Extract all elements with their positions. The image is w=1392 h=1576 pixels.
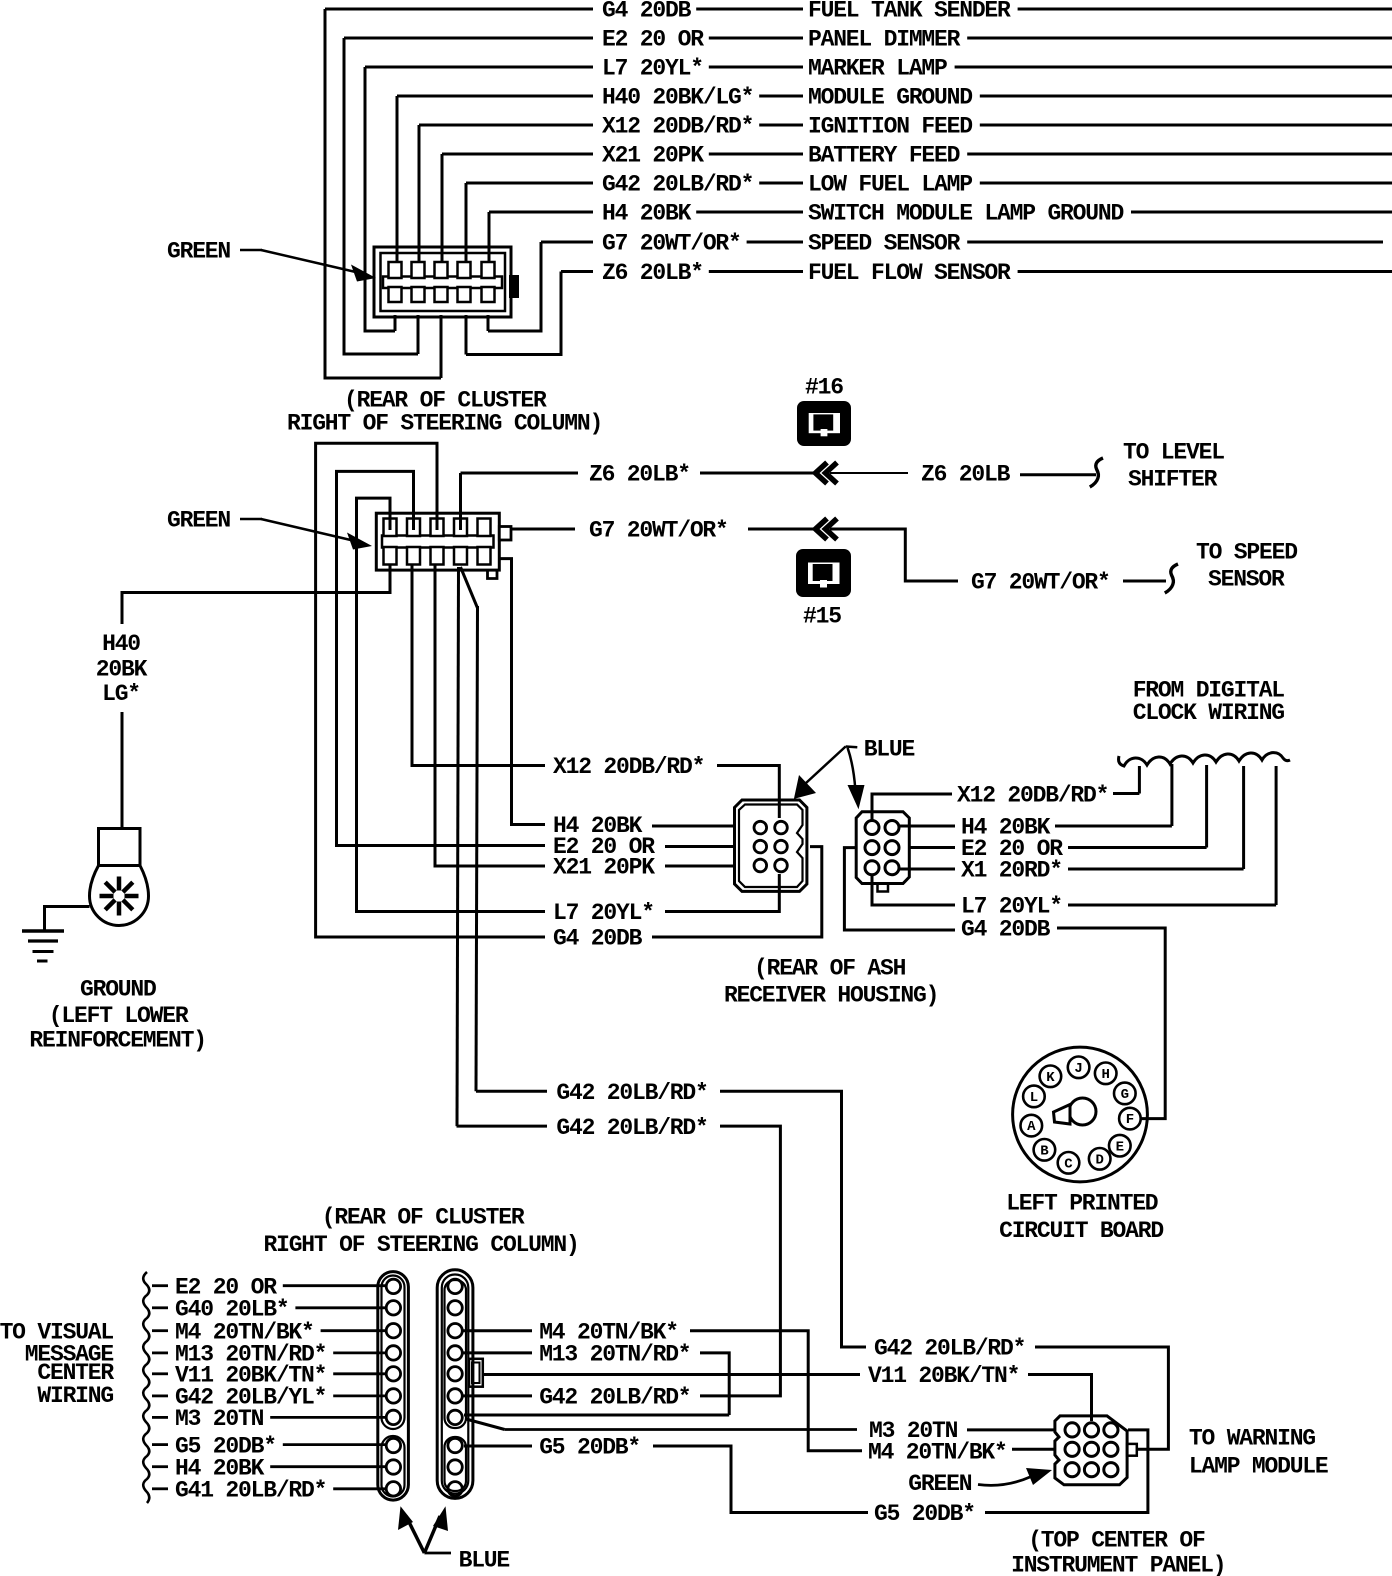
connector C2 top tooth 3 — [431, 519, 444, 537]
svg-text:LAMP MODULE: LAMP MODULE — [1189, 1453, 1328, 1479]
wire S2 pin7 diagonal to M3 run — [466, 1419, 505, 1430]
wire G7 from C2 right tab — [511, 528, 575, 531]
wire squiggle stub V11 20BK/TN* — [152, 1372, 168, 1375]
wire S2 pin7 horizontal run — [464, 1414, 729, 1417]
wire S2 pin6 to G42 label — [463, 1394, 532, 1397]
warning module right tab — [1127, 1444, 1137, 1456]
wire X21 vertical to C1 top pin 3 — [441, 154, 444, 262]
wire H4 to connector A pin top-left — [652, 825, 736, 828]
svg-text:FUEL FLOW SENSOR: FUEL FLOW SENSOR — [808, 260, 1011, 286]
svg-text:G41 20LB/RD*: G41 20LB/RD* — [175, 1478, 326, 1504]
wire row X21 20PK horizontal — [442, 153, 593, 156]
wire X12 vertical to C1 top pin 2 — [418, 125, 421, 262]
connector C2 outer shell — [376, 513, 499, 570]
connector A inner outline — [739, 805, 803, 888]
PCB pin E — [1109, 1135, 1131, 1157]
wire E2 20 OR to description — [709, 37, 803, 40]
svg-text:LG*: LG* — [102, 681, 140, 707]
inline connector icon #16 — [797, 401, 851, 446]
strip S2 pin 1 — [448, 1279, 462, 1293]
strip S1 pin 4 — [386, 1346, 400, 1360]
wire G4 to connector A pin mid-right — [652, 847, 822, 937]
connector C1 right lock tab — [509, 275, 519, 298]
wire V11 20BK/TN* to strip connector S1 — [333, 1372, 385, 1375]
wire G42 20LB/RD* to description — [759, 182, 803, 185]
brace to speed sensor — [1165, 564, 1178, 593]
wire G4 20DB to description — [696, 8, 803, 11]
wire M13 right jog down — [700, 1353, 729, 1415]
strip connector S1 lower cavity — [382, 1436, 405, 1497]
svg-text:X21 20PK: X21 20PK — [553, 855, 655, 881]
wire X12 to connector A pin top-right — [717, 766, 779, 819]
wire G42 down into warning module tab — [1035, 1347, 1168, 1449]
wire E2 to connector A pin mid-left — [665, 845, 736, 848]
wire PANEL DIMMER to right edge — [967, 37, 1392, 40]
PCB center post — [1069, 1098, 1096, 1125]
wire G42-1 into label — [476, 1090, 547, 1093]
connector C1 bottom tooth 4 — [458, 287, 471, 302]
wire M4 into warning module pin mid-left — [1012, 1448, 1056, 1451]
svg-text:SPEED SENSOR: SPEED SENSOR — [808, 231, 961, 257]
svg-text:M3 20TN: M3 20TN — [175, 1406, 264, 1432]
wire X12 from C2 bottom tooth2 — [412, 565, 545, 766]
leader arrow BLUE to strip S2 — [424, 1516, 440, 1553]
wire Z6 riser to C1 bottom pin 4 — [465, 315, 468, 355]
wire MODULE GROUND to right edge — [980, 95, 1392, 98]
wire G7 label to chevron — [748, 528, 814, 531]
svg-text:MODULE GROUND: MODULE GROUND — [808, 85, 972, 111]
strip S2 pin 8 — [448, 1438, 462, 1452]
wire L7 20YL* to description — [709, 66, 803, 69]
strip connector S1 upper cavity — [382, 1276, 405, 1430]
PCB pin A — [1021, 1115, 1043, 1137]
connector A pin r3c2 — [775, 859, 788, 872]
wire G42-2 into label — [457, 1125, 548, 1128]
svg-text:G42 20LB/RD*: G42 20LB/RD* — [874, 1336, 1025, 1362]
wire G7 to brace — [1123, 580, 1166, 583]
connector C2 center channel — [382, 536, 494, 548]
PCB pin G — [1114, 1083, 1136, 1105]
svg-text:FUEL TANK SENDER: FUEL TANK SENDER — [808, 0, 1011, 24]
svg-text:G4 20DB: G4 20DB — [602, 0, 692, 24]
svg-text:L7 20YL*: L7 20YL* — [553, 900, 654, 926]
wire squiggle stub G41 20LB/RD* — [152, 1487, 168, 1490]
wire Z6 vertical right — [560, 272, 563, 357]
svg-text:E: E — [1116, 1139, 1124, 1155]
lamp bulb — [90, 866, 149, 926]
svg-text:H40: H40 — [102, 631, 140, 657]
wire G4 right to printed circuit board — [1057, 928, 1165, 1119]
wire row Z6 20LB* horizontal — [561, 270, 593, 273]
wire H4 right to clock drop — [1055, 825, 1172, 828]
strip S1 pin 10 — [386, 1482, 400, 1496]
svg-text:IGNITION FEED: IGNITION FEED — [808, 114, 972, 140]
connector A pin r3c1 — [754, 859, 767, 872]
leader arrow GREEN to warning module — [978, 1477, 1030, 1485]
svg-text:H40 20BK/LG*: H40 20BK/LG* — [602, 85, 753, 111]
svg-text:BATTERY FEED: BATTERY FEED — [808, 143, 960, 169]
strip S2 pin 4 — [448, 1346, 462, 1360]
svg-text:X1 20RD*: X1 20RD* — [961, 858, 1062, 884]
wire row H4 20BK horizontal — [489, 211, 593, 214]
wire Z6 wrap-under horizontal — [466, 353, 561, 356]
wire X12 20DB/RD* to description — [759, 124, 803, 127]
strip S2 right tab (V11) — [469, 1359, 483, 1387]
svg-text:SWITCH MODULE LAMP GROUND: SWITCH MODULE LAMP GROUND — [808, 201, 1123, 227]
warning module pin r2c2 — [1084, 1442, 1098, 1456]
wire row L7 20YL* horizontal — [365, 66, 593, 69]
wire Z6 20LB* to description — [709, 270, 803, 273]
wire G7 20WT/OR* to description — [747, 241, 803, 244]
wire L7 loop from C2 top tooth1 — [357, 498, 546, 911]
connector B pin r3c1 — [865, 861, 879, 875]
wire G7 riser to C1 bottom pin 5 — [487, 315, 490, 331]
connector C1 bottom tooth 2 — [412, 287, 425, 302]
wire G4 vertical left — [324, 9, 327, 380]
wire X21 20PK to description — [709, 153, 803, 156]
wire G4 riser to C1 bottom pin 3 — [440, 315, 443, 378]
connector B pin r2c2 — [885, 841, 899, 855]
torn-edge squiggle (visual message center) — [143, 1272, 149, 1503]
wire G42-1 to lower right section — [720, 1091, 842, 1348]
wire H40 vertical to C1 top pin 1 — [396, 96, 399, 262]
svg-text:V11 20BK/TN*: V11 20BK/TN* — [868, 1363, 1019, 1389]
svg-text:G42 20LB/RD*: G42 20LB/RD* — [556, 1080, 707, 1106]
wire H40 down to lamp — [121, 712, 124, 829]
svg-text:WIRING: WIRING — [37, 1383, 113, 1409]
wire H4 from C2 right side — [499, 559, 545, 825]
wire row G42 20LB/RD* horizontal — [466, 182, 593, 185]
svg-text:M13 20TN/RD*: M13 20TN/RD* — [539, 1342, 690, 1368]
strip S2 pin 6 — [448, 1389, 462, 1403]
connector C1 bottom tooth 1 — [389, 287, 402, 302]
wire G5 20DB* to strip connector S1 — [283, 1443, 385, 1446]
svg-text:X12 20DB/RD*: X12 20DB/RD* — [957, 783, 1108, 809]
wire E2 20 OR to strip connector S1 — [283, 1284, 385, 1287]
wire M13 20TN/RD* to strip connector S1 — [333, 1352, 385, 1355]
wire G41 20LB/RD* to strip connector S1 — [333, 1487, 385, 1490]
svg-text:G5 20DB*: G5 20DB* — [874, 1501, 975, 1527]
wire G42-1 diagonal from C2 bottom tooth4 — [461, 567, 478, 608]
wire L7 riser to C1 bottom pin 1 — [394, 315, 397, 331]
svg-text:G42 20LB/RD*: G42 20LB/RD* — [602, 172, 753, 198]
svg-text:Z6 20LB*: Z6 20LB* — [602, 260, 703, 286]
wire E2 from connector B pin mid-right — [909, 846, 955, 849]
svg-text:GREEN: GREEN — [908, 1471, 971, 1497]
wire G42-1 vertical — [476, 606, 478, 1091]
wire H4 20BK to description — [696, 211, 803, 214]
svg-text:LEFT PRINTED: LEFT PRINTED — [1006, 1191, 1158, 1217]
connector B pin r1c2 — [885, 821, 899, 835]
svg-text:TO WARNING: TO WARNING — [1189, 1426, 1315, 1452]
wire row G7 20WT/OR* horizontal — [541, 241, 593, 244]
svg-text:K: K — [1046, 1070, 1055, 1086]
wire M3 20TN to strip connector S1 — [270, 1416, 385, 1419]
wire squiggle stub H4 20BK — [152, 1465, 168, 1468]
svg-text:F: F — [1126, 1112, 1134, 1128]
svg-text:CLOCK WIRING: CLOCK WIRING — [1133, 700, 1285, 726]
svg-text:G7 20WT/OR*: G7 20WT/OR* — [602, 231, 741, 257]
leader arrow BLUE to connector B — [848, 748, 856, 789]
wire SWITCH MODULE LAMP GROUND to right edge — [1131, 211, 1392, 214]
connector C2 bottom tooth 5 — [478, 547, 491, 565]
strip S1 pin 8 — [386, 1438, 400, 1452]
wire row E2 20 OR horizontal — [344, 37, 593, 40]
connector C2 bottom tooth 1 — [384, 547, 397, 565]
strip S2 pin 3 — [448, 1324, 462, 1338]
strip S2 pin 10 — [448, 1482, 462, 1496]
svg-text:A: A — [1027, 1119, 1036, 1135]
strip connector S2 outer shell — [437, 1270, 473, 1499]
svg-text:L: L — [1030, 1090, 1038, 1106]
warning module pin r1c3 — [1104, 1423, 1118, 1437]
strip S1 pin 6 — [386, 1389, 400, 1403]
wire G5 up into warning module pin top-right — [985, 1430, 1148, 1513]
wire M3 long horizontal — [505, 1428, 857, 1431]
wire X21 from C2 bottom tooth3 — [435, 565, 545, 866]
wire squiggle stub G5 20DB* — [152, 1443, 168, 1446]
connector A pin r1c2 — [775, 821, 788, 834]
leader BLUE stub — [424, 1552, 451, 1555]
wire Z6 horizontal — [461, 472, 579, 475]
warning lamp module connector shell — [1055, 1416, 1127, 1485]
svg-text:Z6 20LB: Z6 20LB — [921, 462, 1011, 488]
connector B pin r2c1 — [865, 841, 879, 855]
svg-text:(LEFT LOWER: (LEFT LOWER — [49, 1003, 189, 1029]
PCB pin D — [1089, 1148, 1111, 1170]
wire G42-2 to mid-bottom label — [700, 1126, 780, 1396]
connector C2 right tab — [499, 527, 511, 541]
svg-text:H: H — [1101, 1067, 1109, 1083]
wire lamp to ground — [45, 907, 90, 932]
wire E2 vertical left — [343, 38, 346, 356]
PCB pin K — [1040, 1066, 1062, 1088]
wire M4 over to right label — [690, 1331, 862, 1451]
svg-text:TO SPEED: TO SPEED — [1196, 540, 1297, 566]
svg-text:#16: #16 — [805, 375, 843, 401]
clock drop wire 2 — [1170, 764, 1173, 826]
PCB pin J — [1068, 1057, 1090, 1079]
connector A pin r1c1 — [754, 821, 767, 834]
warning module pin r1c1 — [1065, 1423, 1079, 1437]
wire Z6 from C2 top tooth 4 — [459, 473, 462, 530]
wire C2 bottom tooth1 to ground run — [122, 565, 390, 624]
svg-text:20BK: 20BK — [96, 657, 148, 683]
strip S1 pin 5 — [386, 1367, 400, 1381]
strip connector S2 inner shell — [442, 1275, 469, 1494]
wire row X12 20DB/RD* horizontal — [419, 124, 593, 127]
connector C2 bottom tooth 2 — [407, 547, 420, 565]
wire X1 right to clock drop — [1068, 868, 1244, 871]
connector symbol chevron G7 — [816, 519, 828, 540]
connector B bottom tab — [878, 884, 889, 892]
warning module pin r3c3 — [1104, 1463, 1118, 1477]
wire G4 loop from C2 top tooth3 — [316, 443, 545, 937]
wire S2 tab V11 long run — [483, 1373, 860, 1376]
wire G7 chevron right jog down — [830, 529, 958, 581]
wire H40 20BK/LG* to description — [759, 95, 803, 98]
connector C1 bottom tooth 5 — [482, 287, 495, 302]
wire G4 wrap-under horizontal — [325, 377, 441, 380]
svg-text:BLUE: BLUE — [864, 737, 915, 763]
connector C2 top tooth 2 — [407, 519, 420, 537]
wire E2 riser to C1 bottom pin 2 — [417, 315, 420, 354]
strip S1 pin 3 — [386, 1324, 400, 1338]
wire Z6 to brace — [1020, 473, 1096, 476]
connector C1 top tooth 4 — [458, 262, 471, 278]
clock drop wire 4 — [1242, 766, 1245, 869]
wire IGNITION FEED to right edge — [980, 124, 1392, 127]
strip S1 pin 7 — [386, 1410, 400, 1424]
strip connector S2 lower cavity — [445, 1437, 467, 1491]
strip connector S2 upper cavity — [445, 1280, 467, 1428]
connector A pin r2c2 — [775, 840, 788, 853]
warning module pin r2c1 — [1065, 1442, 1079, 1456]
wire M4 20TN/BK* to strip connector S1 — [321, 1329, 385, 1332]
svg-text:G7 20WT/OR*: G7 20WT/OR* — [589, 518, 728, 544]
svg-text:TO LEVEL: TO LEVEL — [1123, 440, 1224, 466]
leader arrow BLUE to strip S1 — [406, 1516, 424, 1553]
svg-text:REINFORCEMENT): REINFORCEMENT) — [29, 1028, 205, 1054]
PCB pin C — [1058, 1152, 1080, 1174]
connector B shell — [856, 812, 909, 884]
svg-text:X12 20DB/RD*: X12 20DB/RD* — [602, 114, 753, 140]
svg-text:(REAR OF CLUSTER: (REAR OF CLUSTER — [322, 1205, 525, 1231]
svg-text:(TOP CENTER OF: (TOP CENTER OF — [1028, 1528, 1205, 1554]
svg-text:MARKER LAMP: MARKER LAMP — [808, 56, 947, 82]
inline connector icon #15 — [796, 549, 851, 597]
connector C1 top tooth 1 — [389, 262, 402, 278]
connector A shell (rear of ash receiver) — [735, 800, 807, 891]
wire squiggle stub M13 20TN/RD* — [152, 1352, 168, 1355]
ground symbol — [22, 929, 64, 933]
svg-text:GROUND: GROUND — [80, 977, 156, 1003]
connector C2 bottom tooth 4 — [454, 547, 467, 565]
svg-text:RIGHT OF STEERING COLUMN): RIGHT OF STEERING COLUMN) — [264, 1232, 579, 1258]
wire E2 wrap-under horizontal — [344, 353, 418, 356]
wire V11 to warning module pin top-middle — [1028, 1375, 1092, 1422]
PCB pin H — [1095, 1063, 1117, 1085]
warning module pin r1c2 — [1084, 1423, 1098, 1437]
leader arrow GREEN to C2 — [240, 518, 262, 521]
wire SPEED SENSOR to right edge — [967, 241, 1383, 244]
wire squiggle stub M3 20TN — [152, 1416, 168, 1419]
warning module pin r2c3 — [1104, 1442, 1118, 1456]
wire squiggle stub M4 20TN/BK* — [152, 1329, 168, 1332]
PCB pin F — [1119, 1108, 1141, 1130]
wire G42 into right label — [842, 1346, 867, 1349]
svg-text:LOW FUEL LAMP: LOW FUEL LAMP — [808, 172, 972, 198]
wire FUEL FLOW SENSOR to right edge — [1018, 270, 1392, 273]
wire S2 pin8 to G5 label — [464, 1445, 532, 1448]
svg-text:GREEN: GREEN — [167, 239, 230, 265]
wire L7 vertical left — [364, 67, 367, 333]
wire H4 vertical to C1 top pin 5 — [488, 212, 491, 262]
PCB keying tab — [1054, 1105, 1071, 1125]
connector C1 center bar — [383, 277, 502, 289]
wire S2 pin4 to M13 label — [463, 1351, 532, 1354]
warning module pin r3c1 — [1065, 1463, 1079, 1477]
svg-text:G4 20DB: G4 20DB — [961, 917, 1051, 943]
wire L7 wrap-under horizontal — [365, 330, 395, 333]
PCB pin L — [1023, 1086, 1045, 1108]
svg-text:PANEL DIMMER: PANEL DIMMER — [808, 27, 961, 53]
leader arrow GREEN to C1 — [240, 249, 262, 252]
wire G7 wrap-under horizontal — [488, 330, 541, 333]
wire FUEL TANK SENDER to right edge — [1018, 8, 1392, 11]
wire L7 right to clock drop — [1068, 904, 1276, 907]
strip connector S1 outer shell — [378, 1272, 409, 1501]
connector C1 inner shell — [381, 253, 506, 311]
clock drop wire 1 — [1138, 766, 1141, 794]
connector B pin r1c1 — [865, 821, 879, 835]
wire E2 loop from C2 top tooth2 — [337, 471, 546, 845]
svg-text:SENSOR: SENSOR — [1208, 567, 1285, 593]
svg-text:M3 20TN: M3 20TN — [869, 1418, 958, 1444]
svg-text:G42 20LB/RD*: G42 20LB/RD* — [539, 1385, 690, 1411]
wire H4 from connector B pin top-right — [899, 825, 955, 828]
digital clock torn wire squiggle — [1119, 753, 1290, 766]
strip S1 pin 2 — [386, 1301, 400, 1315]
wire G42 vertical to C1 top pin 4 — [465, 183, 468, 262]
wire MARKER LAMP to right edge — [955, 66, 1392, 69]
strip S1 pin 9 — [386, 1460, 400, 1474]
wire Z6 label to chevron — [700, 472, 814, 475]
svg-text:X12 20DB/RD*: X12 20DB/RD* — [553, 754, 704, 780]
svg-text:D: D — [1095, 1152, 1103, 1168]
svg-text:X21 20PK: X21 20PK — [602, 143, 704, 169]
wire LOW FUEL LAMP to right edge — [980, 182, 1392, 185]
wire G42 20LB/YL* to strip connector S1 — [333, 1395, 385, 1398]
clock drop wire 3 — [1205, 765, 1208, 848]
svg-text:INSTRUMENT PANEL): INSTRUMENT PANEL) — [1011, 1553, 1225, 1576]
connector symbol chevron Z6 — [816, 463, 828, 484]
PCB pin B — [1034, 1139, 1056, 1161]
svg-text:(REAR OF ASH: (REAR OF ASH — [754, 956, 906, 982]
wire G7 vertical right — [540, 242, 543, 333]
wire squiggle stub E2 20 OR — [152, 1284, 168, 1287]
connector C2 bottom tooth 3 — [431, 547, 444, 565]
wire S2 pin3 to M4 label — [463, 1329, 532, 1332]
svg-text:Z6 20LB*: Z6 20LB* — [589, 462, 690, 488]
wire M3 into warning module pin top-left — [967, 1428, 1056, 1431]
svg-text:C: C — [1064, 1156, 1073, 1172]
wire H4 20BK to strip connector S1 — [270, 1465, 385, 1468]
svg-text:BLUE: BLUE — [459, 1548, 510, 1574]
wire BATTERY FEED to right edge — [967, 153, 1392, 156]
brace to level shifter — [1090, 458, 1103, 487]
connector C2 top tooth 1 — [384, 519, 397, 537]
connector C1 top tooth 5 — [482, 262, 495, 278]
wire G40 20LB* to strip connector S1 — [295, 1306, 385, 1309]
connector C2 bottom-right hook — [488, 570, 498, 579]
svg-text:RECEIVER HOUSING): RECEIVER HOUSING) — [724, 983, 938, 1009]
wire X21 to connector A pin bottom-left — [665, 865, 736, 868]
connector C1 outer shell — [374, 247, 511, 317]
wire L7 from connector B pin bottom-left — [872, 875, 955, 905]
svg-text:H4 20BK: H4 20BK — [602, 201, 692, 227]
svg-text:J: J — [1074, 1061, 1082, 1077]
svg-text:SHIFTER: SHIFTER — [1128, 467, 1218, 493]
wire L7 to connector A pin bottom-right — [665, 874, 779, 912]
svg-text:B: B — [1040, 1143, 1049, 1159]
connector B pin r3c2 — [885, 861, 899, 875]
wire X12 from connector B pin top-left — [872, 794, 952, 821]
svg-text:RIGHT OF STEERING COLUMN): RIGHT OF STEERING COLUMN) — [287, 411, 602, 437]
wire G4 from connector B pin mid-left — [844, 848, 955, 930]
connector C1 top tooth 2 — [412, 262, 425, 278]
strip S1 pin 1 — [386, 1279, 400, 1293]
